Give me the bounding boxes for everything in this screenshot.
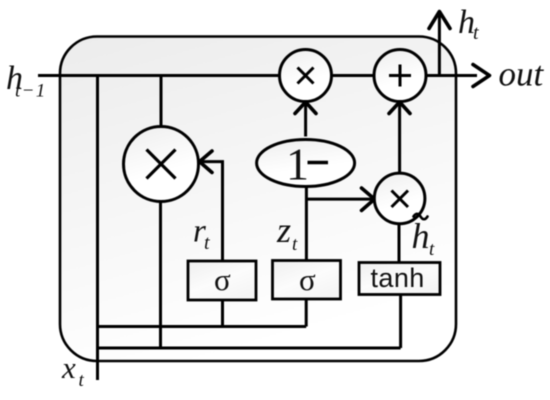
ellipse 1-	[257, 140, 355, 187]
big multiplier circle X	[124, 127, 199, 202]
multiplier circle x (on h line)	[280, 50, 332, 102]
adder circle + (on h line)	[374, 50, 426, 102]
arrowhead to out	[473, 65, 490, 87]
wire: ellipse (1-) up to multiply circle with arrowhead	[304, 104, 307, 137]
wire: sigma1 output down to bus A	[221, 300, 224, 327]
svg-text:t: t	[429, 239, 435, 260]
wire: x_t vertical input	[96, 76, 99, 381]
svg-text:1: 1	[286, 139, 309, 190]
wire: sigma2 output down to bus A	[305, 299, 308, 327]
tanh box	[359, 263, 440, 295]
wire: from big multiplier down to bus line B	[159, 201, 162, 348]
svg-text:t−1: t−1	[15, 81, 47, 102]
wire: main horizontal h line	[38, 74, 477, 77]
wire: tanh top up to small multiplier	[398, 224, 401, 263]
svg-text:t: t	[204, 232, 210, 254]
svg-text:x: x	[61, 350, 76, 385]
sigma box z	[273, 261, 341, 300]
wire: elbow from sigma1 up and left into big multiplier with arrowhead	[202, 162, 223, 261]
small multiplier circle x	[374, 173, 425, 224]
svg-text:z: z	[276, 210, 291, 250]
wire: h_t up arrow	[438, 14, 441, 76]
svg-text:h: h	[412, 216, 430, 256]
svg-text:tanh: tanh	[371, 263, 425, 293]
GRU cell rounded rectangle	[60, 37, 456, 362]
wire: bus line B	[98, 347, 401, 350]
svg-text:t: t	[292, 234, 298, 255]
sigma box r	[188, 261, 256, 300]
wire: branch right into small multiplier with arrowhead	[306, 198, 372, 201]
svg-text:out: out	[499, 55, 545, 94]
wire: from h line down to big multiplier	[160, 76, 163, 128]
wire: bus line A	[98, 325, 307, 328]
svg-text:t: t	[473, 22, 479, 44]
svg-text:t: t	[79, 370, 85, 391]
wire: ellipse bottom down to sigma2	[305, 187, 308, 261]
wire: small multiply circle up to plus circle with arrowhead	[398, 104, 401, 174]
svg-text:σ: σ	[214, 262, 231, 297]
wire: tanh output down to bus B	[399, 295, 402, 349]
svg-text:σ: σ	[299, 262, 316, 297]
